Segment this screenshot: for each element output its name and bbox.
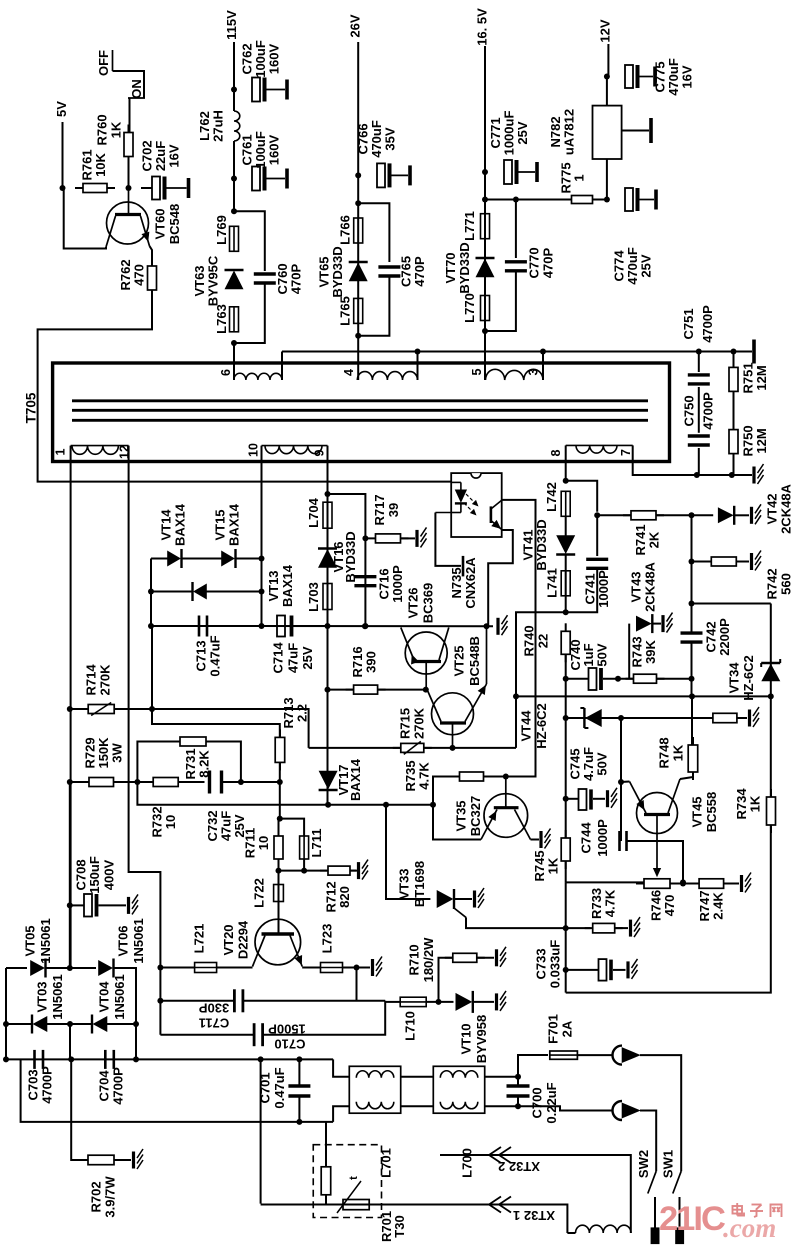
inductor L710 — [400, 997, 426, 1041]
svg-text:160V: 160V — [267, 43, 282, 74]
zener VT44 — [519, 703, 602, 749]
svg-text:VT14: VT14 — [159, 509, 174, 541]
switch SW2 — [636, 1150, 656, 1194]
node — [259, 589, 265, 595]
node — [67, 965, 73, 971]
wire — [606, 77, 608, 106]
wire — [613, 969, 626, 971]
wire — [282, 351, 752, 353]
svg-text:25V: 25V — [300, 646, 315, 669]
svg-text:10: 10 — [256, 836, 271, 850]
winding pins 10-9 — [247, 443, 328, 457]
wire — [692, 561, 712, 563]
svg-text:OFF: OFF — [96, 50, 111, 76]
wire — [333, 1106, 349, 1122]
ground — [541, 829, 551, 849]
svg-text:4.7K: 4.7K — [417, 762, 432, 790]
svg-text:CNX62A: CNX62A — [463, 557, 478, 609]
inductor L762 — [197, 110, 240, 142]
resistor R735 — [403, 760, 492, 791]
svg-text:VT33: VT33 — [397, 868, 412, 899]
node — [604, 197, 610, 203]
ground — [752, 504, 762, 524]
wire — [328, 494, 366, 626]
node — [513, 197, 519, 203]
inductor L765 — [338, 296, 363, 326]
svg-text:2CK48A: 2CK48A — [643, 561, 658, 611]
node — [325, 802, 331, 808]
svg-text:T705: T705 — [24, 392, 39, 423]
wire — [358, 203, 389, 262]
wire — [440, 1155, 631, 1233]
wire — [565, 861, 567, 882]
wire — [64, 188, 106, 249]
svg-text:.com: .com — [723, 1213, 776, 1243]
svg-text:4700P: 4700P — [40, 1066, 55, 1104]
svg-text:16V: 16V — [680, 65, 695, 88]
node — [362, 623, 368, 629]
thermistor T30 — [337, 1176, 369, 1213]
wire — [640, 1055, 681, 1171]
inductor L771 — [462, 211, 490, 241]
wire — [733, 352, 735, 368]
node — [277, 779, 283, 785]
wire — [679, 1197, 681, 1228]
inductor L769 — [214, 215, 239, 251]
wire — [733, 392, 735, 430]
wire — [261, 1205, 568, 1234]
ground — [417, 527, 427, 547]
wire — [233, 141, 235, 211]
node — [354, 965, 360, 971]
node — [148, 623, 154, 629]
svg-text:R748: R748 — [657, 737, 672, 768]
wire — [633, 445, 752, 475]
wire — [385, 1001, 400, 1003]
wire — [566, 678, 589, 680]
node — [768, 693, 774, 699]
resistor R751 — [729, 359, 769, 399]
capacitor C745 — [568, 747, 610, 810]
wire — [670, 883, 699, 885]
node — [231, 208, 237, 214]
svg-text:2.4K: 2.4K — [711, 892, 726, 920]
node — [67, 1021, 73, 1027]
wire — [160, 1034, 254, 1036]
resistor R760 — [95, 114, 134, 164]
svg-text:L703: L703 — [306, 582, 321, 612]
diode VT63 — [192, 255, 244, 306]
node — [325, 623, 331, 629]
resistor R733 — [585, 888, 623, 933]
resistor R775 — [559, 162, 601, 203]
connector plug — [613, 1101, 641, 1120]
wire — [565, 679, 567, 838]
svg-text:C714: C714 — [271, 642, 286, 674]
wire — [263, 1001, 386, 1035]
svg-text:VT03: VT03 — [35, 981, 50, 1012]
resistor R712 — [320, 866, 358, 912]
svg-text:L711: L711 — [309, 829, 324, 858]
node — [157, 998, 163, 1004]
svg-text:VT42: VT42 — [765, 493, 780, 524]
ground — [742, 873, 752, 893]
svg-text:1000P: 1000P — [595, 819, 610, 857]
svg-text:C713: C713 — [194, 640, 209, 671]
svg-text:10K: 10K — [93, 152, 108, 176]
svg-text:ON: ON — [129, 79, 144, 99]
wire — [531, 839, 540, 841]
inductor L711 — [300, 829, 324, 859]
svg-text:6: 6 — [219, 369, 233, 376]
svg-text:1N5061: 1N5061 — [131, 918, 146, 964]
ground — [608, 788, 618, 808]
resistor R741 — [623, 511, 664, 556]
svg-text:560: 560 — [779, 573, 794, 595]
wire — [152, 709, 280, 737]
svg-text:BYD33D: BYD33D — [330, 246, 345, 297]
net-label 5V — [54, 101, 69, 117]
resistor R745 — [532, 830, 570, 882]
net-label 115V — [224, 10, 239, 40]
capacitor C714 — [271, 616, 316, 674]
resistor R714 — [80, 664, 122, 716]
ground — [475, 888, 485, 908]
diode VT10 — [456, 991, 489, 1063]
wire — [151, 625, 196, 627]
wire — [233, 343, 235, 380]
wire — [333, 1059, 349, 1076]
terminal bar — [651, 1228, 659, 1244]
wire — [439, 958, 453, 1002]
node — [231, 176, 237, 182]
inductor L741 — [545, 568, 571, 598]
wire — [234, 284, 265, 343]
svg-text:1N5061: 1N5061 — [112, 974, 127, 1020]
ground — [754, 464, 764, 484]
svg-text:uA7812: uA7812 — [562, 109, 577, 155]
switch label OFF — [96, 50, 113, 76]
line filter L701 — [349, 1066, 400, 1178]
svg-text:0.47uF: 0.47uF — [272, 1067, 287, 1108]
node — [482, 169, 488, 175]
wire — [517, 1077, 519, 1086]
node — [689, 559, 695, 565]
node — [355, 200, 361, 206]
svg-text:VT20: VT20 — [221, 924, 236, 955]
node — [694, 472, 700, 478]
svg-text:SW2: SW2 — [636, 1150, 651, 1178]
capacitor C702 — [140, 140, 189, 199]
terminal bar — [676, 1228, 684, 1244]
wire — [565, 882, 567, 992]
wire — [485, 272, 516, 331]
svg-text:C733: C733 — [534, 948, 549, 979]
svg-text:VT13: VT13 — [266, 570, 281, 601]
wire — [151, 558, 168, 560]
wire — [327, 494, 329, 806]
svg-text:L769: L769 — [214, 215, 229, 245]
svg-text:820: 820 — [337, 886, 352, 908]
wire — [236, 558, 262, 560]
diode VT17 — [319, 758, 364, 801]
connector XT32 2 — [489, 1147, 540, 1174]
diode VT33 — [397, 861, 455, 909]
svg-text:C700: C700 — [530, 1087, 545, 1118]
node — [689, 693, 695, 699]
svg-text:L742: L742 — [544, 482, 559, 512]
capacitor C710 — [254, 1022, 306, 1052]
resistor R761 — [75, 149, 115, 192]
svg-text:BC369: BC369 — [421, 583, 436, 623]
wire — [327, 446, 329, 494]
wire — [70, 446, 72, 968]
svg-text:1N5061: 1N5061 — [38, 918, 53, 964]
node — [436, 999, 442, 1005]
svg-text:BC558: BC558 — [704, 792, 719, 832]
wire — [150, 246, 153, 266]
svg-text:5: 5 — [470, 368, 484, 375]
connector XT32 1 — [489, 1197, 555, 1224]
wire — [424, 747, 516, 749]
wire — [640, 1111, 656, 1172]
inductor L766 — [338, 215, 363, 245]
inductor L763 — [214, 304, 239, 334]
wire — [485, 1105, 518, 1107]
svg-text:4700P: 4700P — [701, 392, 716, 430]
wire — [517, 1096, 519, 1106]
svg-text:C701: C701 — [258, 1072, 273, 1103]
node — [67, 902, 73, 908]
node — [415, 349, 421, 355]
node — [450, 745, 456, 751]
wire — [566, 481, 598, 512]
wire — [151, 591, 193, 593]
resistor R762 — [118, 258, 157, 298]
capacitor C762 — [240, 40, 288, 101]
resistor R702 — [80, 1155, 122, 1217]
net-label 26V — [348, 14, 363, 37]
wire — [516, 612, 566, 748]
node — [67, 779, 73, 785]
svg-text:L763: L763 — [214, 304, 229, 334]
node — [68, 1056, 74, 1062]
diode VT65 — [317, 246, 368, 297]
capacitor C713 — [194, 616, 223, 677]
capacitor C765 — [378, 256, 427, 287]
thermistor R701 — [321, 1159, 407, 1242]
node — [296, 1056, 302, 1062]
wire — [128, 157, 130, 188]
resistor R743 — [626, 636, 665, 683]
svg-text:270K: 270K — [412, 707, 427, 739]
svg-text:270K: 270K — [98, 664, 113, 696]
node — [515, 1103, 521, 1109]
wire — [737, 717, 747, 719]
capacitor C704 — [97, 1050, 126, 1105]
wire — [502, 500, 536, 777]
wire — [566, 717, 585, 719]
wire — [6, 1058, 333, 1060]
wire — [698, 387, 700, 433]
wire — [150, 559, 152, 627]
node — [513, 693, 519, 699]
svg-text:470: 470 — [132, 264, 147, 286]
wire — [597, 514, 631, 516]
svg-text:BT1698: BT1698 — [412, 861, 427, 907]
wire — [606, 159, 608, 200]
wire — [46, 967, 97, 969]
wire — [485, 1076, 518, 1078]
svg-text:R742: R742 — [765, 568, 780, 599]
ground — [631, 917, 641, 937]
node — [540, 349, 546, 355]
inductor L721 — [192, 924, 217, 973]
svg-text:50V: 50V — [595, 643, 610, 666]
capacitor C703 — [26, 1050, 55, 1104]
terminal bar — [649, 118, 653, 143]
wire — [621, 717, 712, 719]
node — [60, 185, 66, 191]
node — [689, 512, 695, 518]
wire — [401, 1105, 434, 1107]
capacitor C732 — [205, 771, 247, 842]
node — [3, 1056, 9, 1062]
node — [276, 868, 282, 874]
wire — [279, 859, 305, 871]
wire — [243, 1000, 385, 1002]
winding pins 1-12 — [54, 445, 132, 459]
wire — [71, 1059, 88, 1160]
wire — [736, 561, 749, 563]
capacitor C740 — [568, 639, 610, 690]
node — [563, 967, 569, 973]
svg-text:C710: C710 — [274, 1037, 305, 1052]
svg-text:HZ-6C2: HZ-6C2 — [741, 655, 756, 701]
resistor R740 — [522, 623, 571, 662]
diode VT04 — [92, 974, 127, 1033]
svg-text:VT05: VT05 — [23, 925, 38, 956]
net-label 12V — [598, 19, 613, 42]
svg-text:1K: 1K — [546, 857, 561, 874]
svg-text:470P: 470P — [289, 263, 304, 294]
wire — [160, 967, 194, 969]
wire — [628, 624, 630, 679]
capacitor C708 — [74, 856, 117, 916]
svg-text:BAX14: BAX14 — [227, 503, 242, 546]
capacitor C711 — [198, 989, 242, 1030]
svg-text:4: 4 — [342, 369, 356, 376]
capacitor C761 — [240, 131, 288, 190]
svg-text:C703: C703 — [26, 1069, 41, 1100]
wire — [454, 898, 472, 900]
svg-text:16V: 16V — [167, 144, 182, 167]
svg-text:25V: 25V — [515, 121, 530, 144]
wire — [733, 454, 735, 475]
node — [325, 491, 331, 497]
resistor R747 — [691, 879, 732, 922]
svg-text:2CK48A: 2CK48A — [779, 483, 794, 533]
node — [148, 589, 154, 595]
zener VT34 — [727, 655, 781, 701]
wire — [357, 42, 359, 380]
wire — [566, 604, 771, 993]
wire — [698, 352, 700, 373]
node — [563, 676, 569, 682]
svg-text:1K: 1K — [748, 795, 763, 812]
svg-text:1: 1 — [572, 174, 587, 181]
node — [362, 623, 368, 629]
wire — [466, 917, 591, 928]
degauss box T701 — [313, 1145, 381, 1218]
resistor R748 — [657, 737, 698, 780]
resistor R731 — [172, 737, 214, 780]
fuse F701 — [546, 1014, 578, 1059]
svg-text:C751: C751 — [681, 308, 696, 339]
wire — [328, 689, 354, 691]
wire — [577, 1054, 613, 1056]
svg-text:1: 1 — [54, 448, 68, 455]
wire — [114, 709, 308, 748]
wire — [217, 967, 253, 969]
wire — [261, 446, 263, 626]
wire — [358, 277, 389, 336]
node — [689, 601, 695, 607]
ground — [373, 957, 383, 977]
wire — [293, 625, 328, 627]
ground — [628, 959, 638, 979]
transformer core line — [72, 399, 648, 402]
svg-text:VT60: VT60 — [153, 208, 168, 239]
svg-text:BYD33D: BYD33D — [534, 519, 549, 570]
wire — [622, 130, 649, 132]
wire — [691, 642, 693, 696]
wire — [281, 352, 283, 381]
wire — [21, 1059, 334, 1122]
svg-text:12V: 12V — [598, 19, 613, 42]
node — [696, 349, 702, 355]
terminal bar — [752, 340, 756, 364]
logo 21IC — [659, 1200, 782, 1243]
wire — [206, 742, 241, 783]
wire — [114, 781, 205, 783]
svg-text:R714: R714 — [84, 664, 99, 696]
svg-text:R740: R740 — [522, 625, 537, 656]
svg-text:VT34: VT34 — [727, 662, 742, 694]
wire — [542, 352, 544, 381]
wire — [477, 957, 494, 959]
ground — [497, 947, 507, 967]
capacitor C771 — [488, 111, 537, 184]
wire — [433, 777, 536, 805]
svg-text:4700P: 4700P — [700, 305, 715, 343]
svg-text:12M: 12M — [754, 428, 769, 453]
winding pins 8-7 — [549, 445, 633, 456]
svg-text:1000P: 1000P — [596, 570, 611, 608]
wire — [620, 718, 622, 841]
capacitor C744 — [579, 819, 627, 857]
svg-text:2.2: 2.2 — [295, 704, 310, 722]
wire — [691, 604, 693, 634]
svg-text:2200P: 2200P — [717, 618, 732, 656]
wire — [47, 1023, 92, 1025]
node — [731, 349, 737, 355]
wire — [652, 623, 661, 625]
wire — [182, 558, 222, 560]
wire — [596, 515, 598, 556]
wire — [325, 1122, 327, 1167]
svg-text:180/2W: 180/2W — [421, 937, 436, 983]
